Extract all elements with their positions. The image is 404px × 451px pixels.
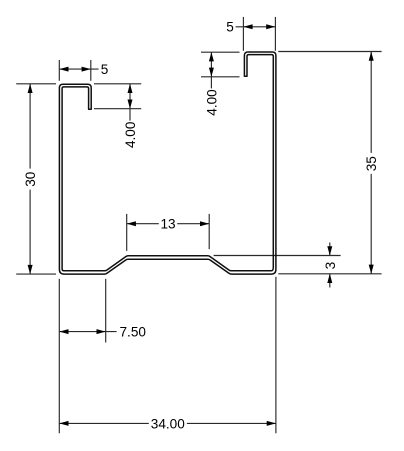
dim 5 top-left: extension line right — [90, 60, 92, 81]
dim 13: extension line left — [126, 214, 128, 251]
dim 30 left: dimension line upper segment — [29, 84, 31, 169]
dim 30 left: extension line bottom — [16, 273, 56, 275]
dim 4.00 right lip: extension line bottom — [201, 76, 240, 78]
svg-text:5: 5 — [226, 20, 234, 35]
svg-text:30: 30 — [23, 171, 38, 187]
dim 4.00 left lip: extension line top — [94, 83, 141, 85]
dim 30 left: arrow down — [28, 265, 33, 274]
dim 5 top-right: extension line left — [242, 17, 244, 51]
dim 5 top-right: arrow left — [243, 24, 252, 29]
svg-text:13: 13 — [160, 217, 175, 232]
dim 13: arrow right — [200, 221, 209, 226]
dim 4.00 left lip: arrow down — [128, 100, 133, 109]
dim 34.00: extension line right — [275, 277, 277, 433]
dim 7.50: dimension line — [59, 331, 116, 333]
dim 34.00: dimension line right segment — [187, 422, 276, 424]
svg-text:34.00: 34.00 — [151, 416, 185, 431]
dim 5 top-right: extension line right — [274, 17, 276, 51]
dim 13: extension line right — [208, 214, 210, 249]
dim 35 right: dimension line upper segment — [370, 52, 372, 153]
dim 34.00: arrow right — [267, 421, 276, 426]
dim 7.50: extension line left (shared with 34.00) — [58, 279, 60, 433]
dim 5 top-left: arrow right — [82, 67, 91, 72]
dim 35 right: arrow down — [369, 265, 374, 274]
dim 4.00 right lip: dimension line — [210, 52, 212, 88]
svg-text:7.50: 7.50 — [120, 325, 147, 340]
dim 35 right + dim 3: shared extension line bottom — [278, 273, 381, 275]
dim 13: dimension line left segment — [127, 223, 159, 225]
dim 3: dimension line upper tail — [329, 243, 331, 256]
dim 5 top-left: dimension line — [59, 68, 98, 70]
dim 4.00 left lip: arrow up — [128, 84, 133, 93]
dim 35 right: dimension line lower segment — [370, 174, 372, 274]
dim 4.00 right lip: arrow down — [209, 68, 214, 77]
dim 5 top-left: arrow left — [59, 67, 68, 72]
dim 7.50: extension line right — [105, 279, 107, 343]
dim 30 left: dimension line lower segment — [29, 190, 31, 275]
dim 30 left: extension line top — [16, 83, 56, 85]
dim 5 top-right: arrow right — [266, 24, 275, 29]
svg-text:3: 3 — [323, 262, 338, 270]
dim 35 right: extension line top — [278, 51, 381, 53]
dim 35 right: arrow up — [369, 52, 374, 61]
dim 5 top-left: extension line left — [58, 60, 60, 81]
svg-text:35: 35 — [364, 156, 379, 171]
dim 34.00: arrow left — [59, 421, 68, 426]
dim 13: dimension line right segment — [177, 223, 209, 225]
dim 3: extension line top — [214, 255, 341, 257]
dim 7.50: arrow right — [97, 329, 106, 334]
dim 5 top-right: dimension line — [236, 26, 276, 28]
dim 4.00 left lip: extension line bottom — [94, 108, 141, 110]
dim 7.50: arrow left — [59, 329, 68, 334]
channel profile cross-section outline — [59, 52, 276, 274]
svg-text:4.00: 4.00 — [204, 89, 219, 116]
dim 3: arrow up (below lower line) — [327, 274, 332, 283]
dim 4.00 right lip: extension line top — [201, 51, 240, 53]
dim 34.00: dimension line left segment — [59, 422, 149, 424]
dim 4.00 left lip: dimension line — [129, 84, 131, 121]
dim 3: dimension line lower tail — [329, 274, 331, 288]
dim 4.00 right lip: arrow up — [209, 52, 214, 61]
dim 13: arrow left — [127, 221, 136, 226]
svg-text:5: 5 — [101, 62, 109, 77]
svg-text:4.00: 4.00 — [123, 121, 138, 148]
dim 3: arrow down (above upper line) — [327, 246, 332, 255]
dim 30 left: arrow up — [28, 84, 33, 93]
